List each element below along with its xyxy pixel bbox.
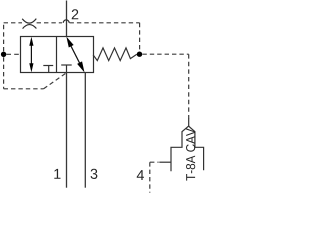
pilot wire: dashed diagonal up to port 1 junction [44,73,66,88]
left position flow path: double-headed vertical arrow [29,37,33,73]
pilot wire: dashed stub from left node to valve pilot port [6,53,20,55]
spring (zigzag on right of valve) [93,48,137,61]
pilot wire: dashed from right node to cavity corner [142,53,188,55]
node label 2 [72,9,79,19]
valve position divider [56,37,58,73]
node label 1 [54,169,60,179]
node label 3 [91,169,98,179]
pilot wire: dashed vertical down to right node [139,23,141,52]
pilot wire: dashed horizontal bottom left [4,88,44,90]
wire port 3 (bottom right vertical line) [84,73,86,188]
port 4 dashed wire vertical [149,162,151,192]
right position blocked port (T symbol) [61,65,71,73]
pilot wire: dashed vertical down to cavity apex [188,54,190,118]
pilot wire: dashed vertical left (node up to top corner) [3,23,5,52]
solid stub into cavity apex [188,118,190,126]
orifice (fixed restriction) on pilot line [22,19,36,29]
right position flow path: diagonal double-headed arrow 2-3 [66,37,84,73]
cavity T-8A outline left branch [171,126,189,171]
pilot junction node (left) [1,52,6,57]
left position blocked port (T symbol) [43,66,53,73]
pilot wire: dashed top horizontal, orifice to hop [37,22,62,24]
valve body outline (2-position envelope) [21,37,94,73]
wire hop over port-2 line [63,20,69,23]
wire port 1 (bottom left vertical line) [66,73,68,188]
node label 4 [137,170,144,180]
cavity label (rotated) [186,128,195,180]
pilot junction node (right, spring side) [137,52,142,57]
cavity T-8A outline right branch [189,126,204,170]
port 4 dashed wire horizontal [150,161,159,163]
pilot wire: dashed top horizontal, hop to right corner [70,22,140,24]
pilot wire: dashed vertical below left node [3,57,5,89]
pilot wire: dashed top horizontal, left part to orifice [4,22,22,24]
wire port 2 (top vertical line) [66,1,68,37]
port 4 tick on cavity [159,161,171,163]
